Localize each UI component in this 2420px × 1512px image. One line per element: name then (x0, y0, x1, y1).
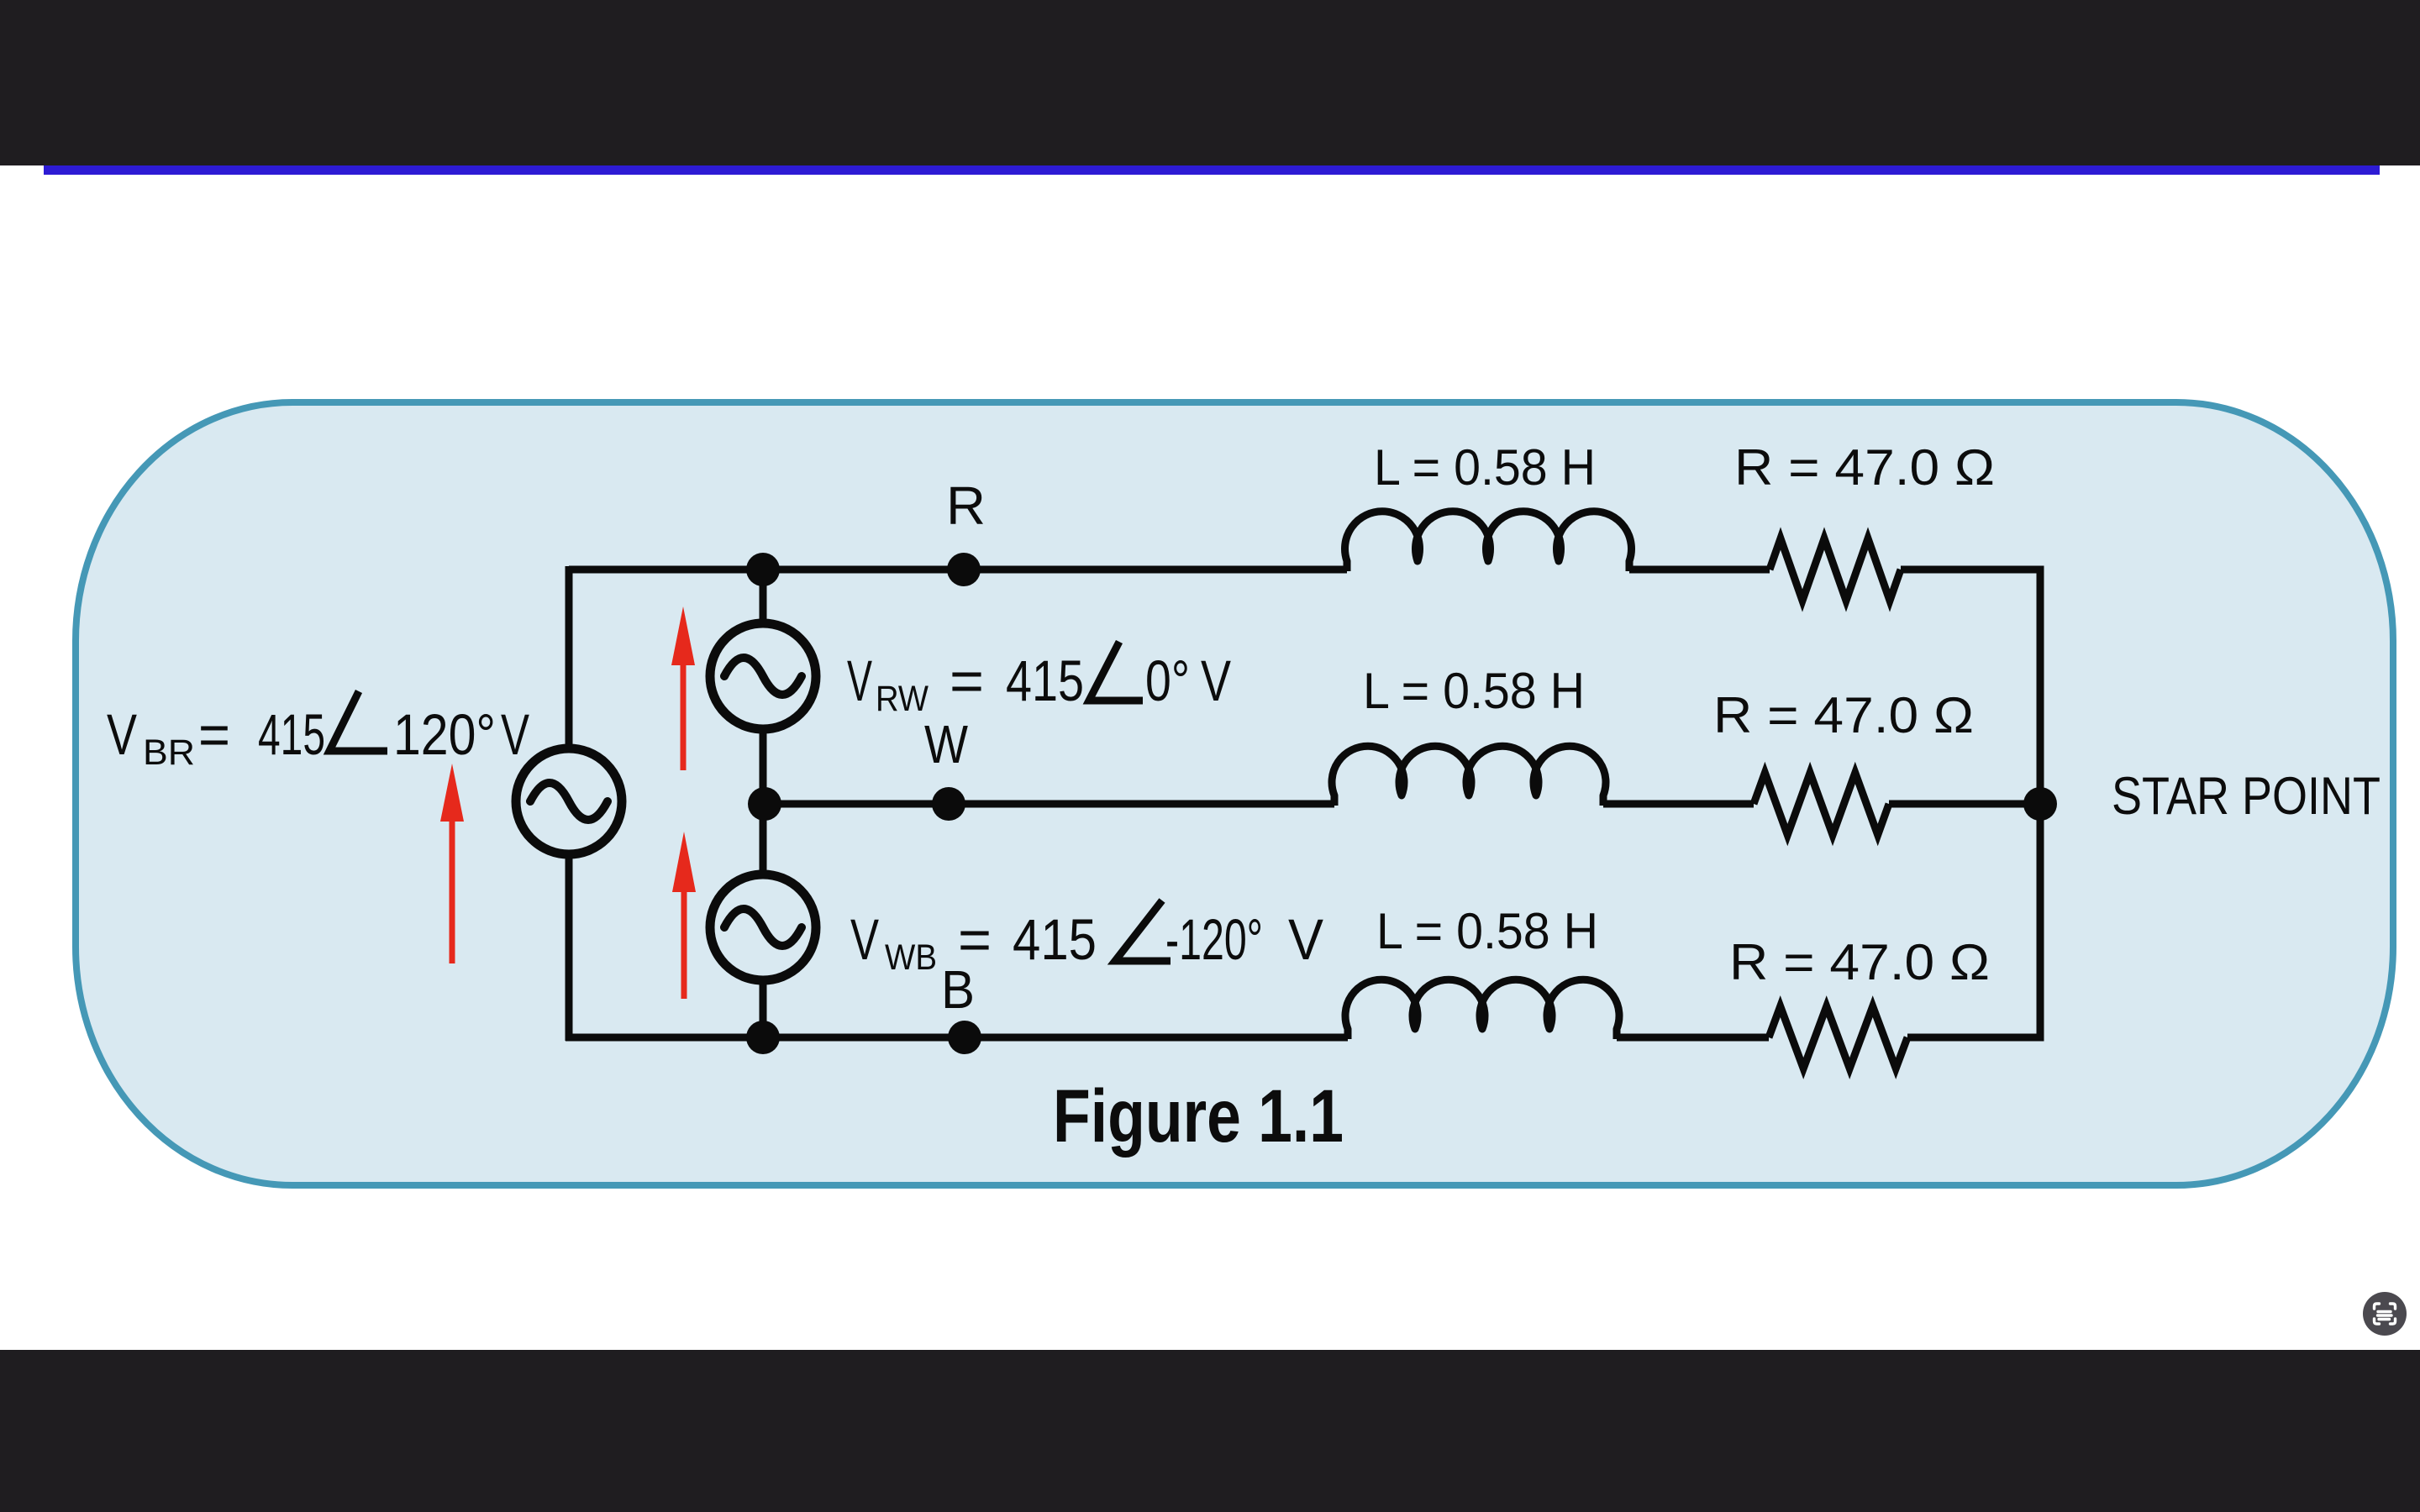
current reference arrow for V_RW (671, 606, 695, 770)
label V_BR = 415 angle 120 deg V (107, 702, 529, 773)
node B phase tap (948, 1021, 981, 1054)
svg-text:L = 0.58 H: L = 0.58 H (1376, 903, 1598, 959)
wire middle branch lower stub (760, 980, 767, 1041)
wire left vertical upper segment (566, 566, 573, 748)
svg-text:-120°: -120° (1165, 907, 1263, 972)
inductor L2 (W line) (1332, 746, 1606, 806)
svg-text:R: R (946, 475, 986, 536)
node label B (941, 959, 975, 1020)
label V_RW = 415 angle 0 deg V (847, 648, 1231, 719)
value label R1 (1734, 439, 1995, 496)
label V_WB = 415 angle -120 deg V (850, 907, 1323, 978)
current reference arrow for V_BR (440, 764, 464, 963)
AC source V_RW (710, 623, 816, 729)
node R-line/middle-branch junction (746, 553, 780, 586)
node label W (924, 714, 969, 774)
node label R (946, 475, 986, 536)
node label STAR POINT (2112, 767, 2381, 826)
wire right bus with corners (R line right segment, star bus, B line right segment) (1901, 570, 2040, 1037)
AC source V_BR (516, 748, 622, 854)
svg-text:V: V (850, 907, 879, 972)
svg-text:415: 415 (258, 702, 325, 767)
svg-text:R = 47.0 Ω: R = 47.0 Ω (1713, 687, 1974, 743)
value label L1 (1374, 439, 1596, 496)
top black bar (0, 0, 2420, 165)
value label L2 (1363, 663, 1585, 719)
node W-line/middle-branch junction (748, 787, 781, 821)
angle symbol for V_RW (1089, 642, 1143, 701)
node W phase tap (932, 787, 965, 821)
svg-text:Figure 1.1: Figure 1.1 (1053, 1074, 1344, 1158)
svg-text:V: V (847, 648, 872, 713)
value label L3 (1376, 903, 1598, 959)
svg-text:120°: 120° (393, 702, 496, 767)
value label R2 (1713, 687, 1974, 743)
AC source V_WB (710, 874, 816, 980)
svg-text:L = 0.58 H: L = 0.58 H (1374, 439, 1596, 496)
svg-text:=: = (198, 702, 230, 767)
svg-text:W: W (924, 714, 969, 774)
svg-text:B: B (941, 959, 975, 1020)
angle symbol for V_BR (329, 691, 387, 751)
svg-text:BR: BR (143, 732, 195, 773)
angle symbol for V_WB (1115, 900, 1171, 961)
node B-line/middle-branch junction (746, 1021, 780, 1054)
wire left vertical lower segment (566, 854, 573, 1041)
svg-text:=: = (950, 648, 984, 713)
wire R line middle segment (1629, 566, 1770, 574)
bottom black bar (0, 1350, 2420, 1512)
resistor R1 (R line) (1770, 538, 1901, 601)
current reference arrow for V_WB (672, 832, 696, 999)
caption Figure 1.1 (1053, 1074, 1344, 1158)
wire W line left segment (763, 801, 1334, 808)
inductor L1 (R line) (1345, 512, 1632, 571)
inductor L3 (B line) (1345, 979, 1619, 1039)
svg-text:V: V (1288, 907, 1323, 972)
svg-text:0°: 0° (1145, 648, 1190, 713)
svg-text:V: V (501, 702, 529, 767)
node R phase tap (947, 553, 981, 586)
svg-text:R = 47.0 Ω: R = 47.0 Ω (1734, 439, 1995, 496)
wire B line left segment (566, 1034, 1348, 1042)
svg-text:WB: WB (885, 937, 937, 978)
svg-text:RW: RW (876, 679, 929, 719)
svg-text:L = 0.58 H: L = 0.58 H (1363, 663, 1585, 719)
blue divider bar (44, 165, 2380, 175)
svg-text:V: V (107, 702, 137, 767)
wire middle branch middle stub (760, 729, 767, 874)
wire W line right segment (1889, 801, 2040, 808)
wire middle branch upper stub (760, 566, 767, 623)
svg-text:415: 415 (1006, 648, 1084, 713)
svg-text:STAR POINT: STAR POINT (2112, 767, 2381, 826)
svg-text:V: V (1201, 648, 1231, 713)
resistor R3 (B line) (1769, 1006, 1907, 1068)
wire W line middle segment (1603, 801, 1754, 808)
wire R line left segment (569, 566, 1347, 574)
node star point junction (2023, 787, 2057, 821)
resistor R2 (W line) (1754, 773, 1889, 835)
wire B line middle segment (1617, 1034, 1769, 1042)
scan icon bottom right (2361, 1290, 2408, 1337)
enclosure rounded panel (76, 402, 2393, 1185)
value label R3 (1729, 934, 1990, 990)
svg-text:R = 47.0 Ω: R = 47.0 Ω (1729, 934, 1990, 990)
svg-text:415: 415 (1013, 907, 1097, 972)
